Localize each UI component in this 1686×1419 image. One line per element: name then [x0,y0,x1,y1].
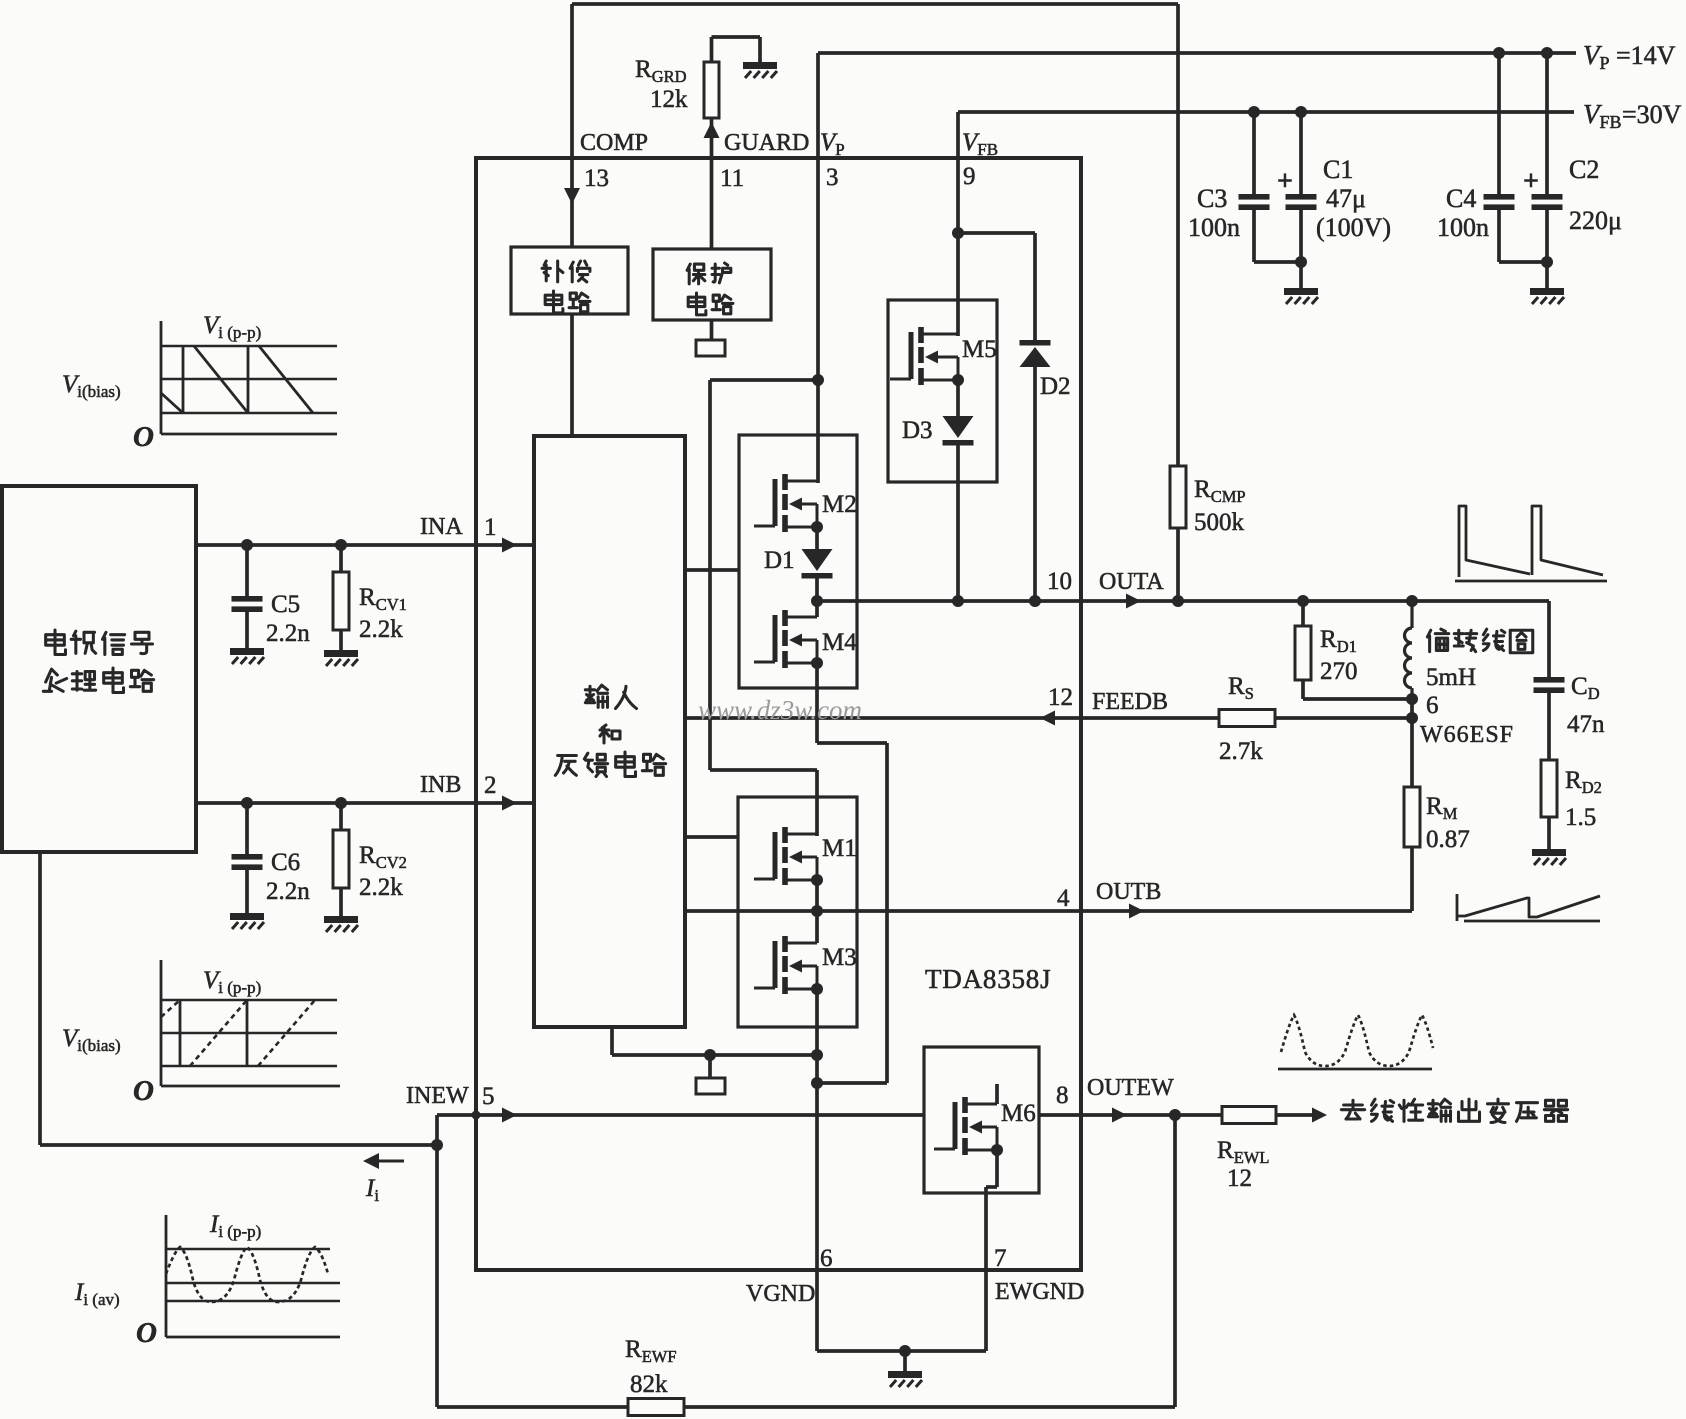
svg-text:GUARD: GUARD [724,130,809,156]
substrate contact plate (bottom) [696,1078,725,1094]
label coil 5mH / 6 / W66ESF [1420,664,1514,748]
wire: VGND and EWGND join to ground [817,1349,986,1353]
wire: REWF loop riser right [1173,1115,1177,1407]
IC TDA8358J outline box [476,158,1081,1270]
wire: OUTB line from bridge to RM [738,904,1412,919]
substrate contact plate (top) [696,340,725,356]
text 保护电路 (protection) [687,263,733,315]
wire: RS to coil node [1275,716,1412,720]
svg-text:100n: 100n [1188,213,1240,242]
icon: EW waveform underline [1278,1068,1432,1071]
node: M4 source junction [811,657,823,669]
svg-text:11: 11 [720,165,744,192]
block: lower bridge box M1/M3 [738,797,857,1027]
wire: RD1 bottom lead to coil node [1303,680,1412,699]
wire: RCV2 bottom lead [339,888,343,916]
text 和 (and) [600,725,620,743]
graph1 bias level line [161,378,337,381]
wire: OUTEW from M6 box with arrow [1039,1108,1222,1123]
block: compensation circuit 补偿电路 [511,247,628,314]
resistor RS 2.7k body [1219,710,1275,727]
svg-text:TDA8358J: TDA8358J [925,964,1051,994]
label RD2 value [1565,767,1602,831]
current arrow Ii annotation [363,1153,404,1169]
svg-text:C2: C2 [1569,155,1599,184]
graph2 sawtooth verticals [180,1000,247,1066]
svg-text:3: 3 [826,164,839,191]
wire: RGRD top jumper to ground [712,37,761,62]
wire: CD branch from OUTA corner [1547,601,1551,677]
wire: D3 cathode down to OUTA line [956,446,960,602]
svg-text:0.87: 0.87 [1426,826,1470,853]
pin 10 OUTA label and arrow [1047,568,1164,609]
svg-text:6: 6 [1426,692,1439,719]
wire: RCMP bottom to OUTA junction [1176,528,1180,601]
wire: VP pin 3 down to bridge split junction [816,158,820,380]
icon: OUTB sawtooth waveform [1457,894,1600,921]
graph1 sawtooth waveform [161,346,313,413]
wire: OUTA line from bridge to CD corner [817,599,1549,603]
graph3 average line [166,1282,340,1285]
wire: RM bottom to OUTB line [1410,847,1414,911]
wire: RD1 top lead [1301,601,1305,626]
node: INEW riser junction [431,1139,443,1151]
node: RCV2 tap on INB [335,797,347,809]
resistor RCV1 2.2k body [333,572,349,630]
label C3 value [1188,184,1240,242]
node: C2 ground junction [1541,256,1553,268]
resistor REWF 82k body [628,1399,684,1416]
svg-text:D1: D1 [764,547,795,574]
label RCV1 value [359,584,407,643]
wire: RGRD bottom to GUARD pin 11 with up arrow [704,118,720,158]
wire: VP filter drops C4 C2 [1499,53,1547,194]
wire: C6 top lead [245,803,249,854]
text 电视信号 (TV signal) [46,630,66,655]
svg-text:+: + [1523,166,1539,197]
pin 4 OUTB label [1057,879,1161,912]
wire: VP rail from pin 3 corner to right edge [818,53,1576,158]
inductor deflection coil 5mH [1405,601,1412,699]
text 去线性输出变压器 (to linearity output transformer) [1341,1100,1364,1119]
node: coil top tap on OUTA [1406,595,1418,607]
block: upper bridge box M2/D1/M4 [739,435,857,688]
label RS value [1219,673,1263,765]
svg-text:INEW: INEW [406,1083,469,1109]
wire: VFB branch to D2 [958,233,1035,340]
svg-text:13: 13 [584,165,609,192]
node: OUTB bridge junction [811,905,823,917]
pin 9 VFB label [962,129,998,190]
text 偏转线圈 (deflection coil) [1427,629,1448,652]
svg-text:INA: INA [420,514,463,540]
svg-text:2.2n: 2.2n [266,878,310,905]
resistor RD1 270 body [1295,626,1311,680]
svg-text:M2: M2 [822,491,857,518]
node: RCV1 tap on INA [335,539,347,551]
node: ground stem junction [899,1345,911,1357]
capacitor C4 100n [1484,194,1515,210]
wire: M3 drain up to OUTB node [815,911,819,943]
pin 3 VP label [820,129,845,191]
svg-text:1: 1 [484,514,497,541]
wire: M4 drain up to OUTA node [815,601,819,617]
svg-text:500k: 500k [1194,509,1245,536]
wire: M6 source to EWGND pin 7 [986,1150,997,1351]
label C1 plus and value [1277,155,1391,242]
capacitor C2 220u electrolytic [1532,194,1563,210]
graph1 baseline [161,412,337,415]
svg-text:100n: 100n [1437,213,1489,242]
svg-text:82k: 82k [630,1371,668,1398]
pin 13 COMP label [580,130,648,192]
wire: compensation block to input block [570,314,574,436]
wire: M5 source to D3 [956,380,960,416]
block: M5/D3 box [888,300,997,482]
block: M6 EW output box [924,1047,1039,1193]
node: C2 tap on VP rail [1541,47,1553,59]
ground for RCV2 [324,916,358,932]
ground for C6 [230,913,264,929]
graph2 bias level line [161,1032,337,1035]
wire: TV box bottom to INEW feed [40,852,437,1145]
text 处理电路 (processing circuit) [43,669,66,691]
wire: INB from TV box to IC pin 2 [196,796,534,811]
wire: COMP top compensation loop (pin13 riser, top edge, right edge down to RCMP) [572,4,1178,466]
svg-text:M5: M5 [962,336,997,363]
graph2 top level line [161,999,337,1002]
node: OUTA bridge junction [811,595,823,607]
wire: C1 to ground [1299,262,1303,288]
svg-text:C6: C6 [271,849,300,876]
node: C6 tap on INB [241,797,253,809]
node: RCMP tap on OUTA [1172,595,1184,607]
wire: M1 source to OUTB node [815,880,819,911]
capacitor CD 47n [1534,677,1565,693]
text 反馈电路 (feedback circuit) [555,756,576,776]
wire: VFB rail from pin 9 corner to right edge [958,112,1574,158]
transistor M3 [754,936,817,994]
svg-text:2.2k: 2.2k [359,874,403,901]
node: C1 tap on VFB rail [1295,106,1307,118]
wire: VFB pin down to M5 box [956,158,960,233]
wire: C4 C2 bottoms join [1499,210,1547,262]
ground for RCV1 [324,650,358,666]
svg-text:12k: 12k [650,86,688,113]
wire: M6 drain stub [995,1084,999,1104]
node: RD1 tap on OUTA [1297,595,1309,607]
transistor M2 [754,474,817,532]
svg-text:M1: M1 [822,835,857,862]
wire: C3 C1 bottoms join [1254,210,1301,262]
svg-text:6: 6 [820,1245,833,1272]
node: VP split junction [812,374,824,386]
svg-text:+: + [1277,166,1293,197]
wire: VFB filter drops C3 C1 [1254,112,1301,194]
text 输入 (input) [585,685,607,707]
graph3 dashed hump waveform [166,1247,328,1302]
svg-text:47μ: 47μ [1326,184,1366,213]
node: C5 tap on INA [241,539,253,551]
svg-text:12: 12 [1227,1165,1252,1192]
node: C1 ground junction [1295,256,1307,268]
ground for C2 C4 [1530,288,1564,304]
svg-text:O: O [133,1075,154,1107]
svg-text:C1: C1 [1323,155,1353,184]
node: junction substrate tap on VGND bus [811,1049,823,1061]
wire: OUTB feedback from bridge to input block [685,909,738,913]
transistor M6 [934,1097,997,1155]
pin 2 INB label [420,772,497,799]
resistor RCV2 2.2k body [333,830,349,888]
svg-text:8: 8 [1056,1082,1069,1109]
node: REWF riser tap on OUTEW [1169,1109,1181,1121]
node: M5 source junction [952,374,964,386]
ground for RGRD [743,62,777,78]
svg-text:OUTEW: OUTEW [1087,1075,1174,1101]
label RM value [1426,793,1470,853]
node: RD1 joins coil node [1406,693,1418,705]
resistor RD2 1.5 body [1541,760,1557,817]
svg-text:10: 10 [1047,568,1072,595]
capacitor C6 2.2n [232,854,263,870]
svg-text:W66ESF: W66ESF [1420,722,1514,748]
wire: RCV2 top lead [339,803,343,830]
graph2 baseline [161,1065,337,1068]
transistor M4 [754,610,817,668]
node: M2 source/body junction [811,521,823,533]
graph2: Vi rising sawtooth axes [161,960,340,1086]
svg-text:D2: D2 [1040,373,1071,400]
svg-text:www.dz3w.com: www.dz3w.com [698,695,862,725]
graph2 dashed rising ramps [161,1000,315,1066]
graph1: Vi falling sawtooth axes [161,321,337,434]
svg-text:12: 12 [1048,684,1073,711]
svg-text:INB: INB [420,772,461,798]
svg-text:5mH: 5mH [1426,664,1476,691]
label C2 plus and value [1523,155,1622,235]
wire: M2 source to D1 anode [815,527,819,549]
svg-text:5: 5 [482,1083,495,1110]
svg-text:=14V: =14V [1616,41,1676,70]
pin 12 FEEDB label [1048,684,1168,715]
wire: VP branch to lower bridge (left riser) [710,380,818,836]
ground for C1 C3 [1284,288,1318,304]
node: M4-source riser joins VGND bus [811,1077,823,1089]
wire: gate drive input block to lower bridge [685,835,738,839]
wire: D2 anode down to OUTA line [1033,367,1037,601]
node: M3 source junction [811,983,823,995]
pin 5 INEW label [406,1083,495,1110]
wire: GUARD pin to protection block [710,158,714,249]
svg-text:O: O [136,1317,157,1349]
transistor M5 [890,327,958,385]
svg-text:COMP: COMP [580,130,648,156]
wire: M4 source down over to right riser (to VGND bus) [817,663,887,1083]
label RCV2 value [359,842,407,901]
graph3 top level line [166,1248,330,1251]
wire: coil node down to RM [1410,699,1414,787]
node: C4 tap on VP rail [1493,47,1505,59]
svg-text:D3: D3 [902,417,933,444]
wire: FEEDB line from input block to deflection node [685,711,1219,726]
capacitor C1 47u electrolytic [1286,194,1317,210]
wire: C5 top lead [245,545,249,596]
svg-text:1.5: 1.5 [1565,804,1596,831]
wire: INA from TV box to IC pin 1 [196,538,534,553]
label C4 value [1437,184,1489,242]
icon: EW parabola waveform [1281,1015,1433,1066]
svg-text:VGND: VGND [746,1281,815,1307]
svg-text:M3: M3 [822,944,857,971]
pin 7 EWGND label [994,1245,1084,1305]
wire: input block bottom stem to VGND bus [612,1027,817,1055]
svg-text:2.2n: 2.2n [266,620,310,647]
wire: C5 bottom lead [245,612,249,648]
svg-text:FEEDB: FEEDB [1092,689,1168,715]
svg-text:C5: C5 [271,591,300,618]
diode D3 [943,416,974,446]
resistor RCMP 500k body [1170,466,1186,528]
svg-text:M6: M6 [1001,1100,1036,1127]
transistor M1 [754,827,817,885]
pin 1 INA label [420,514,497,541]
svg-text:2.2k: 2.2k [359,616,403,643]
svg-text:2.7k: 2.7k [1219,738,1263,765]
capacitor C3 100n [1239,194,1270,210]
node: pin5 boundary blob [472,1111,481,1120]
label REWL value [1217,1137,1269,1192]
icon: OUTA flyback pulse waveform [1455,506,1607,581]
node: D3 tap on OUTA [952,595,964,607]
ground for VGND EWGND [888,1371,922,1387]
wire: VP into upper bridge [816,380,820,483]
wire: RD2 to ground [1547,817,1551,849]
pin 11 GUARD label [720,130,809,192]
svg-text:O: O [133,421,154,453]
wire: ground stem [903,1351,907,1371]
svg-text:2: 2 [484,772,497,799]
node: D2 tap on OUTA [1029,595,1041,607]
wire: REWF bottom wire [437,1405,1175,1409]
label RCMP value [1194,476,1246,536]
wire: protection block to substrate contact [710,320,714,340]
svg-text:OUTB: OUTB [1096,879,1161,905]
pin 6 VGND label [746,1245,833,1307]
resistor REWL 12 body [1222,1107,1276,1124]
svg-text:7: 7 [994,1245,1007,1272]
node: substrate stem junction [704,1049,716,1061]
svg-text:=30V: =30V [1622,100,1682,129]
resistor RM 0.87 body [1404,787,1420,847]
svg-text:EWGND: EWGND [995,1279,1084,1305]
label C6 value [266,849,310,905]
node: C3 tap on VFB rail [1248,106,1260,118]
wire: INEW riser and pin 5 line [437,1108,924,1146]
wire: gate drive input block to upper bridge [685,568,739,572]
label REWF value [625,1336,677,1398]
svg-text:C3: C3 [1197,184,1227,213]
node: VFB split to D2 [952,227,964,239]
svg-text:OUTA: OUTA [1099,569,1164,595]
label RGRD value [635,56,688,113]
block: protection circuit 保护电路 [653,249,771,320]
wire: stem to lower substrate contact [708,1055,712,1078]
svg-text:C4: C4 [1446,184,1476,213]
label CD value [1567,673,1605,738]
ground for C5 [230,648,264,664]
diode D2 [1020,340,1051,367]
wire: CD to RD2 [1547,693,1551,760]
svg-text:4: 4 [1057,885,1070,912]
graph1 top level line [161,345,337,348]
svg-text:9: 9 [963,163,976,190]
svg-text:M4: M4 [822,629,857,656]
wire: VFB into M5 drain [956,233,960,336]
wire: C6 bottom lead [245,870,249,913]
ground for RD2 [1532,849,1566,865]
text 补偿电路 (compensation) [542,261,590,313]
graph3: Ii current waveform axes [166,1215,340,1337]
pin 8 OUTEW label [1056,1075,1174,1109]
wire: COMP pin into IC with down arrow [564,158,580,247]
node: FEEDB joins coil node [1406,712,1418,724]
wire: D1 cathode to OUTA node [815,579,819,602]
node: M6 source junction [991,1144,1003,1156]
graph3 lower line [166,1300,340,1303]
block: TV signal processing box 电视信号处理电路 [2,486,196,852]
svg-text:(100V): (100V) [1316,213,1391,242]
svg-text:220μ: 220μ [1569,206,1622,235]
block: input and feedback circuit 输入和反馈电路 [534,436,685,1027]
wire: RCV1 top lead [339,545,343,572]
label RD1 value [1320,626,1358,685]
node: M1 source junction [811,874,823,886]
wire: REWF bottom left segment [435,1145,439,1407]
label C5 value [266,591,310,647]
wire: M3 source down to VGND pin 6 bus [815,989,819,1351]
wire: REWL output with arrow [1276,1108,1327,1123]
wire: RCV1 bottom lead [339,630,343,650]
wire: C2 to ground [1545,262,1549,288]
resistor RGRD 12k body [704,62,719,118]
diode D1 [802,549,833,579]
capacitor C5 2.2n [232,596,263,612]
svg-text:47n: 47n [1567,711,1605,738]
svg-text:270: 270 [1320,658,1358,685]
